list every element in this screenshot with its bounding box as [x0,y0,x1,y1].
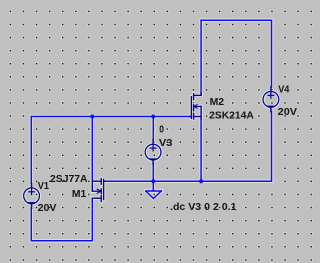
svg-text:M2: M2 [210,97,225,108]
svg-text:V1: V1 [38,181,50,192]
junction node C [151,179,155,183]
wire M2 drain vertical [200,20,202,93]
wire ground rail [105,180,272,182]
voltage source V4 [263,87,279,112]
svg-text:V4: V4 [278,84,290,95]
svg-text:20V: 20V [38,203,57,214]
wire V3 bottom vertical [152,163,154,181]
voltage source V3 [145,140,161,165]
wire V1 bottom vertical [30,208,32,241]
wire top rail M2 drain to V4 [201,19,271,21]
wire V4 top vertical [271,20,273,87]
voltage source V1 [24,183,40,208]
svg-text:V3: V3 [159,138,173,149]
wire V4 bottom vertical [271,112,273,182]
svg-text:0: 0 [159,124,164,135]
svg-text:2SJ77A: 2SJ77A [50,174,88,185]
svg-text:20V: 20V [278,107,298,118]
junction node D [199,179,203,183]
ground [146,181,162,198]
wire M2 source vertical [200,119,202,181]
junction node B [151,115,155,119]
transistor M2 2SK214A nmos [189,93,201,119]
junction node A [90,115,94,119]
wire M1 drain feed vertical [91,202,93,241]
wire left vertical to V1 [30,117,32,184]
svg-text:2SK214A: 2SK214A [209,110,254,121]
svg-text:M1: M1 [72,189,87,200]
wire M1 source feed vertical [91,117,93,182]
wire gate rail [31,116,189,118]
wire bottom rail [31,240,92,242]
transistor M1 2SJ77A pmos [92,179,105,202]
halo layer [24,20,279,241]
wire V3 top vertical [152,117,154,142]
svg-text:.dc V3 0 2 0.1: .dc V3 0 2 0.1 [170,202,237,213]
